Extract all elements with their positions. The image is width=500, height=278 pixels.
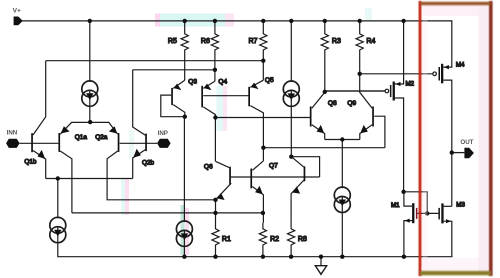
svg-text:Q8: Q8 <box>328 100 337 107</box>
terminal OUT <box>452 139 474 158</box>
wire M2 drain to M1/M3 gate node <box>404 192 428 214</box>
svg-text:Q2a: Q2a <box>95 134 108 141</box>
terminal INN <box>6 130 20 148</box>
resistor R3 <box>321 21 341 92</box>
svg-text:Q6: Q6 <box>204 163 213 170</box>
transistor Qx (diode-connected, above R8) <box>291 157 305 223</box>
node Q3 diode <box>183 115 187 119</box>
transistor Q3 <box>161 79 198 117</box>
svg-text:R4: R4 <box>366 38 375 45</box>
node rail-M1 <box>402 255 406 259</box>
resistor R8 <box>288 223 307 257</box>
svg-text:Q3: Q3 <box>188 79 197 86</box>
svg-text:R6: R6 <box>201 38 210 45</box>
wire R4/Q9 node to M4 gate <box>360 73 433 75</box>
transistor Q8 <box>310 92 337 140</box>
svg-text:Q9: Q9 <box>347 100 356 107</box>
transistor Q4 <box>201 78 249 161</box>
resistor R2 <box>259 223 279 257</box>
transistor Q1a <box>58 122 90 212</box>
transistor Q9 <box>347 74 385 148</box>
node Q8/Q9 tail <box>340 137 344 141</box>
svg-text:V+: V+ <box>13 8 21 15</box>
node R3-M2gate <box>323 90 327 94</box>
transistor Q5 <box>248 77 274 161</box>
node M2 drain <box>401 190 405 194</box>
node rail-R8 <box>289 255 293 259</box>
transistor Q2b <box>133 70 155 179</box>
node Q6 emitter <box>213 198 217 202</box>
svg-text:R5: R5 <box>168 38 177 45</box>
MOSFET M3 (NMOS) <box>438 202 465 257</box>
transistor Q7 <box>250 161 278 223</box>
current source CS5 (above bottom rail, under Q3 collector) <box>176 117 192 257</box>
wire Q1b collector line1 to R7 <box>46 60 264 62</box>
current source CS2 (bottom left) <box>50 179 66 243</box>
svg-text:R8: R8 <box>298 236 307 243</box>
node rail-R7 <box>261 19 265 23</box>
wire top rail V+ <box>23 20 452 22</box>
transistor Q1b <box>20 61 59 179</box>
node emitters Q1a/Q2a <box>88 120 92 124</box>
MOSFET M4 (PMOS) <box>433 21 465 206</box>
wire R3/Q8 node to M2 gate <box>325 90 385 92</box>
current source CS3 (second stage, top) <box>283 21 299 157</box>
svg-text:Q1b: Q1b <box>24 158 37 165</box>
node rail-M2 <box>401 19 405 23</box>
node rail-CS1 <box>88 19 92 23</box>
transistor Q6 <box>204 161 231 200</box>
svg-text:M1: M1 <box>391 202 400 209</box>
svg-text:R1: R1 <box>222 236 231 243</box>
MOSFET M2 (PMOS) <box>325 21 415 192</box>
node OUT <box>450 150 454 154</box>
wire Q4 collector to Q8 base (y=117.5) <box>215 117 310 119</box>
red highlight box <box>419 1 493 276</box>
transistor Q2a <box>90 122 215 199</box>
node line2-R6 <box>213 68 217 72</box>
ground <box>315 257 326 275</box>
node rail-CS3 <box>289 19 293 23</box>
node rail-R1 <box>213 255 217 259</box>
svg-text:R2: R2 <box>270 236 279 243</box>
node CS3-Qx <box>289 155 293 159</box>
svg-text:R7: R7 <box>249 38 258 45</box>
node M1/M3 gates <box>425 211 429 215</box>
resistor R1 <box>212 200 231 257</box>
terminal INP <box>157 130 171 148</box>
svg-text:Q4: Q4 <box>218 78 227 85</box>
resistor R6 <box>201 21 219 81</box>
wire bottom rail <box>58 243 452 257</box>
svg-text:M3: M3 <box>456 202 465 209</box>
wire Q8/Q9 common emitter node to CS4 <box>325 139 360 141</box>
node R2-line <box>261 211 265 215</box>
resistor R4 <box>356 21 375 74</box>
node rail-R3 <box>323 19 327 23</box>
svg-text:Q5: Q5 <box>265 77 274 84</box>
current source CS1 (input pair tail, top) <box>82 21 98 122</box>
wire Q6/Q7/Qx base line (y=177) <box>230 176 319 178</box>
node rail-CS4 <box>340 255 344 259</box>
node Q5/Q7 coll <box>261 146 265 150</box>
wire Q1a collector to R1 node (y=213) <box>72 212 263 214</box>
svg-text:R3: R3 <box>332 38 341 45</box>
resistor R7 <box>249 21 267 80</box>
svg-text:OUT: OUT <box>460 139 473 146</box>
node rail-CS5 <box>182 255 186 259</box>
terminal V+ <box>13 8 23 26</box>
svg-text:Q7: Q7 <box>269 162 278 169</box>
node R4-M4gate <box>358 72 362 76</box>
node rail-R2 <box>261 255 265 259</box>
node tail CS2 <box>56 176 60 180</box>
node rail-R5 <box>183 19 187 23</box>
svg-text:Q2b: Q2b <box>142 160 155 167</box>
svg-text:INN: INN <box>7 130 18 137</box>
jpeg artifact tints <box>121 8 372 255</box>
wire M1-M3 gate line <box>418 212 439 214</box>
wire Q5/Q7 collectors to Q9 base (y=147.7) <box>263 147 385 149</box>
node R1-line <box>213 211 217 215</box>
MOSFET M1 (NMOS diode-connected) <box>391 192 417 257</box>
svg-text:M2: M2 <box>406 80 415 87</box>
svg-text:INP: INP <box>158 130 168 137</box>
wire Q1b/Q2b emitters to CS2 <box>46 178 133 180</box>
current source CS4 (Q8/Q9 tail, bottom) <box>334 140 350 257</box>
svg-text:M4: M4 <box>456 62 465 69</box>
wire Q2b collector line2 to R6 <box>133 69 215 71</box>
node rail-R6 <box>213 19 217 23</box>
svg-text:Q1a: Q1a <box>75 134 88 141</box>
node base-loop of Qx <box>291 157 319 177</box>
node line1-R7 <box>261 59 265 63</box>
node rail-R4 <box>358 19 362 23</box>
node Q4-Q8base <box>213 115 217 119</box>
resistor R5 <box>168 21 188 80</box>
node rail-ground <box>319 255 323 259</box>
